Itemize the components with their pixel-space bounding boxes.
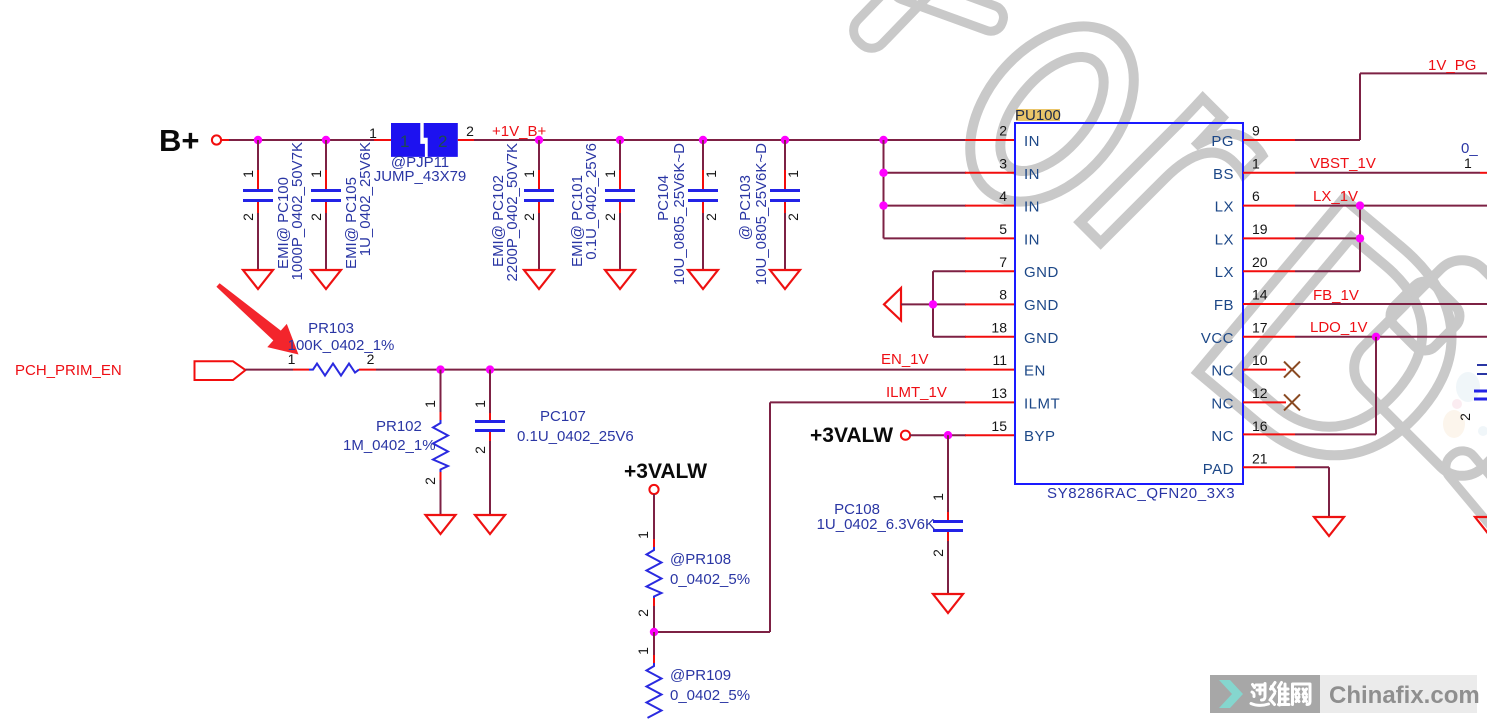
BYP net (810, 424, 1015, 613)
svg-text:2: 2 (1457, 413, 1473, 421)
pin 1 BS stub (1243, 172, 1295, 174)
svg-text:2: 2 (635, 609, 651, 617)
svg-text:1: 1 (369, 125, 377, 141)
wire PC105 pin1 (325, 140, 327, 170)
svg-text:PAD: PAD (1203, 461, 1234, 478)
svg-text:NC: NC (1211, 428, 1234, 445)
ILMT net (654, 384, 1015, 632)
wire jumper pin2 stub (458, 139, 474, 141)
svg-text:0.1U_0402_25V6: 0.1U_0402_25V6 (517, 428, 634, 445)
watermark letter o inner (981, 39, 1124, 189)
svg-text:+3VALW: +3VALW (624, 460, 707, 483)
svg-text:VBST_1V: VBST_1V (1310, 155, 1376, 172)
wire PC102 pin1 (538, 140, 540, 170)
svg-text:PC104: PC104 (655, 175, 672, 221)
svg-text:LX: LX (1215, 199, 1234, 216)
svg-text:17: 17 (1252, 319, 1268, 335)
capacitor PC101 (569, 140, 635, 289)
wire PC101 pin2 (619, 202, 621, 213)
svg-text:0.1U_0402_25V6: 0.1U_0402_25V6 (583, 143, 600, 260)
junction node PC107 (486, 365, 494, 373)
designator highlight PU100 (1016, 109, 1060, 121)
wire junction to PR109 (653, 632, 655, 663)
svg-text:5: 5 (999, 221, 1007, 237)
junction node PC108 (944, 431, 952, 439)
watermark letter o outer (937, 0, 1167, 233)
svg-text:@PR109: @PR109 (670, 667, 731, 684)
junction node PR102 (436, 365, 444, 373)
svg-text:1: 1 (400, 132, 409, 151)
svg-text:IN: IN (1024, 231, 1040, 248)
logo light panel (1320, 675, 1477, 713)
svg-text:@ PC103: @ PC103 (737, 175, 754, 240)
svg-text:PU100: PU100 (1015, 107, 1061, 124)
svg-text:+3VALW: +3VALW (810, 424, 893, 447)
wire PC101 pin1 (619, 140, 621, 170)
pin 17 VCC stub (1243, 336, 1295, 338)
ground (PC107) (475, 515, 505, 534)
svg-text:2: 2 (602, 213, 618, 221)
svg-text:1: 1 (308, 170, 324, 178)
svg-text:4: 4 (999, 188, 1007, 204)
no-connect X (pin 12) (1284, 394, 1300, 410)
ground (PC104) (688, 270, 718, 289)
wire PC103 pin1 (784, 140, 786, 170)
svg-text:10U_0805_25V6K~D: 10U_0805_25V6K~D (753, 143, 770, 285)
capacitor PC100 plates (243, 189, 273, 192)
svg-text:14: 14 (1252, 287, 1268, 303)
pin 12 NC stub (1243, 401, 1286, 403)
resistor PR102 (343, 370, 448, 515)
svg-text:GND: GND (1024, 264, 1059, 281)
svg-text:2: 2 (240, 213, 256, 221)
terminal +3VALW (BYP) (901, 431, 910, 440)
svg-text:16: 16 (1252, 418, 1268, 434)
ground (PC108) (933, 594, 963, 613)
capacitor PC104 plates (688, 189, 718, 192)
svg-text:FB_1V: FB_1V (1313, 287, 1359, 304)
svg-text:VCC: VCC (1201, 330, 1234, 347)
svg-text:10U_0805_25V6K~D: 10U_0805_25V6K~D (671, 143, 688, 285)
wire LDO_1V (1295, 336, 1487, 338)
svg-text:3: 3 (999, 155, 1007, 171)
capacitor PC102 (490, 140, 554, 289)
wire PR103 to EN pin (359, 369, 966, 371)
svg-text:1: 1 (472, 400, 488, 408)
logo chinese characters (1251, 683, 1310, 706)
svg-text:PR102: PR102 (376, 418, 422, 435)
jumper PJP11 (391, 123, 458, 157)
wire PAD to ground (1295, 467, 1329, 517)
svg-text:1: 1 (635, 531, 651, 539)
wire to BYP (910, 434, 966, 436)
pin 14 FB stub (1243, 303, 1295, 305)
svg-text:19: 19 (1252, 221, 1268, 237)
svg-text:1: 1 (240, 170, 256, 178)
ground (power GND arrow) (884, 288, 933, 321)
wire PC100 pin1 (257, 140, 259, 170)
wire jumper pin1 stub (374, 139, 391, 141)
svg-text:1: 1 (1464, 155, 1472, 171)
pin 2 IN stub (965, 139, 1015, 141)
svg-text:GND: GND (1024, 330, 1059, 347)
port connector PCH_PRIM_EN (195, 361, 246, 380)
IC body (1015, 123, 1243, 484)
+3VALW branch (624, 460, 750, 718)
capacitor PC104 (655, 140, 719, 289)
watermark letter l bar (1440, 445, 1487, 580)
junction node LX (1356, 201, 1364, 209)
watermark letter F stem (847, 0, 990, 54)
svg-text:PCH_PRIM_EN: PCH_PRIM_EN (15, 362, 122, 379)
svg-text:PR103: PR103 (308, 320, 354, 337)
svg-text:B+: B+ (159, 123, 200, 158)
EN row (15, 283, 1015, 534)
svg-text:1: 1 (703, 170, 719, 178)
svg-text:2: 2 (438, 132, 447, 151)
svg-text:8: 8 (999, 287, 1007, 303)
LOGO (1210, 675, 1480, 713)
terminal +3VALW (649, 485, 658, 494)
wire LX_1V (1295, 205, 1487, 207)
terminal B+ (212, 135, 221, 144)
resistor PR103 (309, 364, 359, 376)
ground (PC100) (243, 270, 273, 289)
capacitor PC102 plates (524, 189, 554, 192)
svg-text:1U_0402_6.3V6K: 1U_0402_6.3V6K (817, 516, 935, 533)
svg-text:2: 2 (466, 123, 474, 139)
svg-text:SY8286RAC_QFN20_3X3: SY8286RAC_QFN20_3X3 (1047, 485, 1235, 502)
svg-text:IN: IN (1024, 166, 1040, 183)
pin 4 IN stub (965, 205, 1015, 207)
wire LX19 (1295, 237, 1360, 239)
svg-text:JUMP_43X79: JUMP_43X79 (374, 168, 467, 185)
ground (PAD) (1314, 517, 1344, 536)
wire ILMT vertical (769, 402, 771, 632)
svg-text:EN: EN (1024, 363, 1046, 380)
svg-text:2: 2 (999, 123, 1007, 139)
pin 3 IN stub (965, 172, 1015, 174)
svg-text:NC: NC (1211, 363, 1234, 380)
svg-text:LX_1V: LX_1V (1313, 188, 1358, 205)
svg-text:1: 1 (422, 400, 438, 408)
wire PC103 pin2 (784, 202, 786, 213)
svg-text:2: 2 (367, 351, 375, 367)
svg-text:1U_0402_25V6K: 1U_0402_25V6K (357, 142, 374, 256)
capacitor PC105 plates (311, 189, 341, 192)
capacitor PC105 (308, 140, 374, 289)
no-connect X (pin 10) (1284, 362, 1300, 378)
svg-text:7: 7 (999, 254, 1007, 270)
junction node LX19 (1356, 234, 1364, 242)
pin 18 GND stub (965, 336, 1015, 338)
pin 21 PAD stub (1243, 466, 1295, 468)
pin 15 BYP stub (965, 434, 1015, 436)
svg-text:PC107: PC107 (540, 408, 586, 425)
capacitor PC100 (240, 140, 306, 289)
svg-text:Chinafix.com: Chinafix.com (1329, 682, 1480, 709)
capacitor PC101 plates (605, 189, 635, 192)
svg-text:1: 1 (1252, 155, 1260, 171)
svg-text:LX: LX (1215, 264, 1234, 281)
watermark letter F arm (890, 0, 1007, 35)
svg-text:IN: IN (1024, 199, 1040, 216)
svg-text:0_0402_5%: 0_0402_5% (670, 571, 750, 588)
pin 16 NC stub (1243, 433, 1295, 435)
svg-text:1V_PG: 1V_PG (1428, 57, 1476, 74)
svg-text:EN_1V: EN_1V (881, 351, 929, 368)
svg-text:2: 2 (472, 446, 488, 454)
wire to PR108 (653, 494, 655, 547)
svg-text:1: 1 (930, 493, 946, 501)
ground (PR102) (426, 515, 456, 534)
svg-text:15: 15 (991, 418, 1007, 434)
capacitor PC108 (817, 435, 963, 594)
pin 11 EN stub (965, 369, 1015, 371)
svg-text:FB: FB (1214, 297, 1234, 314)
svg-text:IN: IN (1024, 133, 1040, 150)
svg-text:GND: GND (1024, 297, 1059, 314)
capacitor PC103 plates (770, 189, 800, 192)
pin 19 LX stub (1243, 237, 1295, 239)
svg-text:20: 20 (1252, 254, 1268, 270)
pin 20 LX stub (1243, 270, 1295, 272)
capacitor PC107 (472, 370, 634, 515)
svg-text:10: 10 (1252, 352, 1268, 368)
resistor PR109 (647, 663, 662, 718)
svg-text:LX: LX (1215, 231, 1234, 248)
pin 13 ILMT stub (965, 401, 1015, 403)
svg-text:9: 9 (1252, 123, 1260, 139)
pin 7 GND stub (965, 270, 1015, 272)
ground (PC101) (605, 270, 635, 289)
svg-text:LDO_1V: LDO_1V (1310, 319, 1368, 336)
wire bottom link (654, 631, 770, 633)
ground (PC103) (770, 270, 800, 289)
svg-text:2: 2 (521, 213, 537, 221)
svg-text:1: 1 (635, 647, 651, 655)
capacitor at right edge (clipped) (1457, 365, 1487, 421)
wire PR108 to junction (653, 598, 655, 632)
wire GND cluster (929, 271, 966, 337)
pin 5 IN stub (965, 237, 1015, 239)
svg-text:2: 2 (308, 213, 324, 221)
svg-text:ILMT_1V: ILMT_1V (886, 384, 947, 401)
svg-text:21: 21 (1252, 451, 1268, 467)
wire ILMT horizontal (770, 401, 966, 403)
wire PC104 pin1 (702, 140, 704, 170)
capacitor PC103 (737, 140, 801, 289)
svg-text:BYP: BYP (1024, 428, 1056, 445)
resistor PR108 (647, 547, 662, 598)
IC PU100 (991, 107, 1267, 502)
wire LX20 (1295, 206, 1360, 272)
svg-text:13: 13 (991, 385, 1007, 401)
ground (PC105) (311, 270, 341, 289)
svg-text:2200P_0402_50V7K: 2200P_0402_50V7K (504, 143, 521, 281)
svg-text:NC: NC (1211, 395, 1234, 412)
svg-text:PG: PG (1211, 133, 1234, 150)
pin 8 GND stub (965, 303, 1015, 305)
svg-text:2: 2 (930, 549, 946, 557)
svg-text:1: 1 (785, 170, 801, 178)
wire B+ rail left (222, 139, 375, 141)
ground (right edge, clipped) (1475, 517, 1487, 536)
svg-text:0_0402_5%: 0_0402_5% (670, 687, 750, 704)
svg-text:1: 1 (602, 170, 618, 178)
svg-text:11: 11 (992, 352, 1007, 368)
wire BS / VBST_1V (1295, 172, 1487, 174)
pin 9 PG stub (1243, 139, 1295, 141)
logo dark panel (1210, 675, 1320, 713)
pin 10 NC stub (1243, 369, 1286, 371)
svg-text:@PR108: @PR108 (670, 551, 731, 568)
watermark letter e outer (1342, 248, 1487, 488)
junction dots on B+ rail (254, 136, 888, 144)
wire VCC to NC16 (1295, 337, 1376, 435)
wire PC100 pin2 (257, 202, 259, 213)
watermark letter e counter (1385, 276, 1466, 357)
svg-text:6: 6 (1252, 188, 1260, 204)
svg-text:BS: BS (1213, 166, 1234, 183)
svg-text:18: 18 (991, 319, 1007, 335)
junction node LDO (1372, 333, 1380, 341)
junction node (650, 628, 658, 636)
wire PC102 pin2 (538, 202, 540, 213)
wire IN branch vertical (879, 140, 966, 238)
watermark pastel blobs (1456, 372, 1480, 402)
svg-text:2: 2 (422, 477, 438, 485)
svg-text:1000P_0402_50V7K: 1000P_0402_50V7K (289, 142, 306, 280)
svg-text:12: 12 (1252, 385, 1268, 401)
WATERMARK (847, 0, 1487, 580)
svg-text:1M_0402_1%: 1M_0402_1% (343, 437, 436, 454)
right side nets (1243, 57, 1487, 536)
svg-text:2: 2 (785, 213, 801, 221)
wire FB_1V (1295, 303, 1487, 305)
wire PC105 pin2 (325, 202, 327, 213)
pin 6 LX stub (1243, 205, 1295, 207)
wire PG to 1V_PG (1295, 73, 1487, 140)
logo teal chevron (1219, 680, 1243, 708)
svg-text:2: 2 (703, 213, 719, 221)
svg-text:100K_0402_1%: 100K_0402_1% (288, 337, 395, 354)
wire PC104 pin2 (702, 202, 704, 213)
ground (PC102) (524, 270, 554, 289)
wire port to PR103 (246, 369, 310, 371)
svg-text:ILMT: ILMT (1024, 395, 1060, 412)
wire B+ rail right (474, 139, 966, 141)
svg-text:1: 1 (521, 170, 537, 178)
red callout arrow (216, 283, 298, 354)
